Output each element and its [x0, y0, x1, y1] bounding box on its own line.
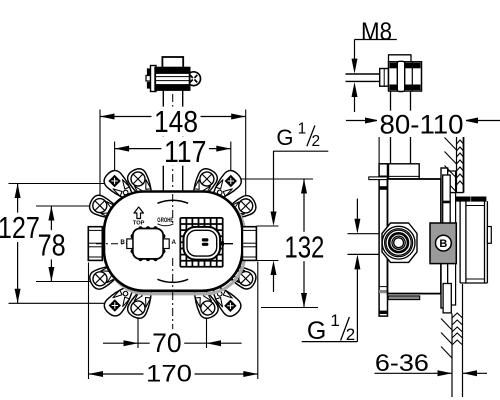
svg-text:2: 2 — [346, 325, 355, 344]
svg-text:127: 127 — [0, 211, 40, 245]
svg-text:78: 78 — [38, 229, 66, 263]
svg-text:1: 1 — [330, 311, 339, 330]
svg-text:A: A — [172, 239, 177, 246]
svg-text:G: G — [307, 317, 326, 345]
svg-text:1: 1 — [298, 121, 307, 138]
svg-text:2: 2 — [312, 133, 321, 150]
svg-text:70: 70 — [152, 328, 182, 358]
svg-text:GROHE: GROHE — [157, 217, 173, 224]
svg-text:G: G — [276, 125, 293, 150]
svg-text:6-36: 6-36 — [375, 350, 429, 377]
svg-text:80-110: 80-110 — [380, 109, 464, 139]
svg-text:132: 132 — [284, 230, 324, 264]
svg-text:B: B — [439, 238, 447, 250]
svg-text:117: 117 — [164, 135, 207, 169]
svg-text:B: B — [120, 239, 125, 246]
svg-text:170: 170 — [146, 361, 192, 388]
svg-text:M8: M8 — [361, 18, 392, 46]
svg-text:TOP: TOP — [133, 221, 145, 227]
